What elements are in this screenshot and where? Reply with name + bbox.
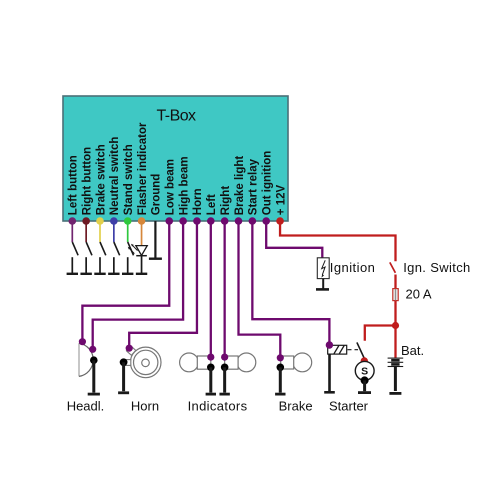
wire Neutral switch xyxy=(113,221,115,242)
wire Right button xyxy=(85,221,87,242)
svg-text:Brake: Brake xyxy=(279,399,313,414)
switch S5 lower lead xyxy=(127,257,129,273)
wire Brake switch xyxy=(99,221,101,242)
svg-text:Headl.: Headl. xyxy=(67,399,105,414)
wire Start relay xyxy=(252,221,329,345)
battery plate long 3 xyxy=(388,366,404,368)
svg-text:Right: Right xyxy=(220,186,232,216)
svg-text:Bat.: Bat. xyxy=(401,343,424,358)
ground S3 xyxy=(94,273,105,275)
right indicator ground lead xyxy=(223,367,226,392)
wire Left xyxy=(210,221,212,357)
left indicator feed dot xyxy=(207,354,214,361)
pin 13 Brake light xyxy=(235,217,243,225)
ground LED xyxy=(136,273,147,275)
switch blade (red) xyxy=(390,262,396,272)
headlight xyxy=(79,338,100,394)
ground brake xyxy=(275,393,285,396)
ground starter xyxy=(358,391,371,394)
svg-text:Left button: Left button xyxy=(68,155,80,215)
starter ground lead xyxy=(363,380,366,391)
main red feed below fuse xyxy=(394,301,396,326)
brake ground lead xyxy=(279,367,282,392)
starter relay coil xyxy=(324,341,358,392)
svg-text:Indicators: Indicators xyxy=(188,399,248,414)
ground left indicator xyxy=(206,393,216,396)
switch chains pins 1-5 xyxy=(67,221,134,274)
indicator lamp right xyxy=(219,353,255,394)
ground battery xyxy=(389,392,401,395)
horn terminal 1 xyxy=(126,346,135,355)
pin 12 Right xyxy=(221,217,229,225)
svg-text:Stand switch: Stand switch xyxy=(123,144,135,215)
ignition box xyxy=(317,258,329,279)
horn ground lead xyxy=(122,362,125,391)
svg-text:Neutral switch: Neutral switch xyxy=(109,137,121,216)
ground right indicator xyxy=(219,393,229,396)
ignition coil unit xyxy=(316,258,375,290)
wire Stand switch xyxy=(127,221,129,242)
right indicator ground dot xyxy=(221,364,229,372)
T-Box body xyxy=(63,96,288,221)
coil box xyxy=(328,345,347,354)
wire Low beam xyxy=(82,221,169,342)
svg-text:Low beam: Low beam xyxy=(165,159,177,215)
brake lamp xyxy=(275,353,312,394)
ignition lower lead xyxy=(322,279,324,289)
Ground pin lead xyxy=(154,221,156,258)
LED arrow 2 xyxy=(129,248,135,254)
battery plate short 1 xyxy=(391,359,399,362)
mechanical link (dashed) xyxy=(348,349,359,351)
wire Horn xyxy=(129,221,197,348)
horn ground dot xyxy=(120,358,128,366)
svg-text:Ground: Ground xyxy=(151,174,163,216)
pin 4 Neutral switch xyxy=(110,217,118,225)
svg-text:Brake light: Brake light xyxy=(234,156,246,216)
pin labels xyxy=(68,122,288,215)
switch S1 lower lead xyxy=(71,257,73,273)
battery lower lead xyxy=(394,367,397,392)
flasher indicator LED xyxy=(128,221,148,274)
ground headlight xyxy=(88,393,100,396)
battery plate short 2 xyxy=(391,363,399,366)
svg-text:Starter: Starter xyxy=(329,399,369,414)
pin 8 Low beam xyxy=(165,217,173,225)
brake ground dot xyxy=(277,364,285,372)
coil ground lead xyxy=(328,354,331,391)
headlight ground dot xyxy=(90,356,98,364)
LED cathode bar xyxy=(136,255,147,257)
high beam dot xyxy=(89,346,96,353)
pin 16 + 12V xyxy=(276,217,284,225)
switch S1 blade xyxy=(72,242,78,255)
svg-text:Start relay: Start relay xyxy=(248,158,260,215)
pin 3 Brake switch xyxy=(96,217,104,225)
wire High beam xyxy=(93,221,183,349)
ground S1 xyxy=(67,273,78,275)
wire Right xyxy=(223,221,225,357)
starter switch blade xyxy=(357,342,364,358)
svg-text:Out ignition: Out ignition xyxy=(262,151,274,216)
reflector chord xyxy=(78,343,80,376)
pin 15 Out ignition xyxy=(262,217,270,225)
ground coil xyxy=(324,391,335,394)
switch S4 lower lead xyxy=(113,257,115,273)
battery xyxy=(388,358,404,393)
ground S2 xyxy=(80,273,91,275)
branch to starter switch xyxy=(365,326,396,341)
svg-text:Left: Left xyxy=(206,194,218,215)
switch S2 lower lead xyxy=(85,257,87,273)
switch S5 blade xyxy=(128,242,134,255)
LED lower lead xyxy=(141,256,143,273)
wire Out ignition xyxy=(266,221,322,258)
wire Brake light xyxy=(239,221,281,358)
wire +12V feed xyxy=(280,221,395,261)
ground horn xyxy=(118,391,129,394)
pin 10 Horn xyxy=(193,217,201,225)
starter motor ground dot xyxy=(361,376,369,384)
svg-text:Horn: Horn xyxy=(131,399,159,414)
svg-text:S: S xyxy=(361,366,368,378)
indicator lamp left xyxy=(180,353,216,394)
pin 11 Left xyxy=(207,217,215,225)
pin 14 Start relay xyxy=(249,217,257,225)
red wire to battery xyxy=(394,326,396,358)
ground S4 xyxy=(108,273,119,275)
left indicator ground lead xyxy=(209,367,212,392)
ground S5 xyxy=(122,273,133,275)
fuse 20A xyxy=(393,287,432,302)
pin 9 High beam xyxy=(179,217,187,225)
pin 2 Right button xyxy=(82,217,90,225)
svg-text:20 A: 20 A xyxy=(406,287,432,302)
pin dots xyxy=(69,217,284,225)
reflector arc xyxy=(79,343,93,376)
right indicator feed dot xyxy=(221,354,228,361)
headlight ground lead xyxy=(92,360,95,392)
switch S2 blade xyxy=(86,242,92,255)
left indicator ground dot xyxy=(207,364,215,372)
switch S3 lower lead xyxy=(99,257,101,273)
svg-text:+ 12V: + 12V xyxy=(275,184,287,215)
starter motor xyxy=(355,361,374,392)
lead below blade xyxy=(394,275,396,290)
svg-text:Ignition: Ignition xyxy=(330,260,376,275)
pin 6 Flasher indicator xyxy=(138,217,146,225)
pin 1 Left button xyxy=(69,217,77,225)
horn terminal 2 xyxy=(124,360,131,366)
ground pin bar xyxy=(149,258,162,260)
wire Left button xyxy=(71,221,73,242)
battery plate long 1 xyxy=(388,357,404,359)
brake feed dot xyxy=(277,354,284,361)
starter switch contact dot xyxy=(361,357,368,364)
switch S4 blade xyxy=(114,242,120,255)
LED triangle xyxy=(136,246,147,256)
LED arrow 1 xyxy=(128,244,138,254)
horn xyxy=(118,345,161,393)
svg-text:High beam: High beam xyxy=(178,156,190,215)
coil wire dot xyxy=(326,341,333,348)
svg-text:Ign. Switch: Ign. Switch xyxy=(403,260,470,275)
svg-text:Flasher indicator: Flasher indicator xyxy=(137,122,149,215)
battery plate long 2 xyxy=(388,361,404,363)
svg-text:Brake switch: Brake switch xyxy=(95,144,107,215)
switch S3 blade xyxy=(100,242,106,255)
wire Flasher indicator xyxy=(141,221,143,246)
horn feed dot xyxy=(126,345,133,352)
pin 5 Stand switch xyxy=(124,217,132,225)
coil hatching xyxy=(334,346,339,354)
ground ignition xyxy=(316,288,329,291)
svg-text:Right button: Right button xyxy=(81,147,93,215)
svg-text:Horn: Horn xyxy=(192,188,204,215)
junction node xyxy=(392,322,399,329)
ignition switch xyxy=(390,260,471,289)
svg-text:T-Box: T-Box xyxy=(156,108,196,125)
ignition bolt xyxy=(322,260,326,275)
low beam dot xyxy=(79,338,86,345)
